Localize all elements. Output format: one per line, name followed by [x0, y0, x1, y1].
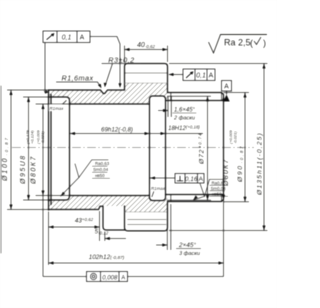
svg-text:Ø135h11(-0,25): Ø135h11(-0,25) — [257, 132, 264, 196]
collar chamfer edge lines — [125, 72, 168, 74]
svg-text:-0,021): -0,021) — [40, 131, 45, 144]
Ø80K7 right — [222, 96, 225, 101]
svg-text:Ra0,63: Ra0,63 — [95, 161, 110, 166]
svg-text:-0,021): -0,021) — [232, 131, 237, 144]
svg-text:0,16: 0,16 — [185, 176, 198, 183]
svg-text:Ra0,8: Ra0,8 — [212, 180, 224, 185]
left symbol — [75, 160, 109, 178]
svg-text:40-0,62: 40-0,62 — [137, 42, 156, 49]
frame 1 — [43, 31, 90, 43]
svg-text:Ø95U8: Ø95U8 — [20, 154, 27, 185]
40 dim — [125, 48, 130, 51]
svg-text:2 фаски: 2 фаски — [173, 116, 195, 122]
svg-text:R1max: R1max — [151, 186, 166, 191]
svg-text:Ø80К7: Ø80К7 — [223, 158, 230, 187]
Ø95U8 — [27, 97, 30, 102]
Ø72 ext + dim — [167, 95, 211, 97]
5 — [105, 237, 110, 240]
Ø135 ext + dim — [169, 63, 268, 65]
svg-text:2×45°: 2×45° — [178, 241, 197, 249]
R1,6max underline+leader — [56, 82, 101, 87]
svg-text:Sm0,04: Sm0,04 — [93, 167, 109, 172]
svg-text:0,1: 0,1 — [62, 35, 72, 42]
Rmax leader 2 — [152, 191, 154, 197]
2x45 — [162, 243, 167, 246]
centerline — [12, 147, 254, 149]
43 — [49, 225, 54, 228]
svg-text:0,008: 0,008 — [102, 275, 118, 281]
R1max leader 1 — [61, 100, 67, 105]
frame 4 — [87, 272, 128, 282]
69h12 — [70, 132, 75, 135]
scan edge artifact left — [0, 86, 2, 253]
bore upper: Ø95 line, step, Ø80 line — [49, 97, 70, 200]
svg-text:Ø80К7: Ø80К7 — [31, 155, 38, 185]
svg-text:): ) — [263, 38, 266, 48]
Ø100 — [9, 90, 12, 95]
svg-text:(: ( — [250, 38, 253, 48]
69h12 / 18H12 dim line — [70, 133, 203, 135]
ring groove rounded rect — [150, 96, 166, 201]
svg-text:R1max: R1max — [50, 106, 65, 111]
svg-text:5-0,12: 5-0,12 — [95, 229, 109, 236]
frame2 leader — [169, 74, 183, 76]
svg-text:Ø90-0,87: Ø90-0,87 — [237, 145, 244, 183]
rotated diameter texts — [2, 130, 264, 196]
hatch upper band — [49, 83, 168, 104]
svg-text:A: A — [121, 275, 125, 281]
small check in parens — [254, 37, 261, 45]
Ø90 — [243, 93, 246, 98]
R3 leader — [102, 64, 142, 86]
outer profile upper — [49, 64, 224, 231]
1,6x45 — [163, 109, 168, 112]
svg-text:+0,124): +0,124) — [29, 130, 34, 144]
svg-text:1,6×45°: 1,6×45° — [174, 108, 196, 114]
svg-text:A: A — [209, 73, 214, 80]
frame3 leader — [150, 177, 175, 179]
top-right Ra 2,5 radical — [209, 35, 268, 54]
hatch lower band — [49, 195, 168, 213]
Ø90 ext + dim — [224, 92, 250, 94]
1,6x45 ext + arrowline — [167, 97, 169, 118]
svg-text:нв50: нв50 — [95, 173, 105, 178]
Ø80K7 right dim line (shares end-face extension) — [223, 95, 225, 277]
svg-text:A: A — [224, 84, 229, 91]
svg-text:нв50: нв50 — [212, 191, 222, 196]
frame 2 — [183, 69, 215, 81]
left dims extension lines — [7, 89, 49, 91]
svg-text:A: A — [199, 176, 204, 183]
svg-text:Ø100-0,87: Ø100-0,87 — [2, 136, 9, 182]
svg-text:R1,6max: R1,6max — [62, 74, 94, 83]
svg-text:R3±0,2: R3±0,2 — [108, 56, 134, 65]
Ø80K7 left — [41, 104, 44, 109]
svg-text:A: A — [80, 35, 85, 42]
frame1 leader to left face — [45, 43, 48, 93]
right bore lines — [166, 100, 224, 102]
journal left chamfer edge — [170, 93, 172, 101]
face inner chamfer line — [50, 95, 52, 205]
hatch boundary faint lines in collar — [125, 82, 168, 84]
102h12 dim — [49, 262, 224, 264]
svg-text:69h12(-0,8): 69h12(-0,8) — [101, 127, 133, 134]
18H12 — [161, 132, 166, 135]
right symbol — [200, 179, 226, 196]
left dim lines — [10, 90, 12, 210]
frame 3 — [175, 174, 204, 184]
frame arrow symbols tips — [51, 33, 194, 75]
journal end chamfer edge — [221, 93, 223, 101]
2x45 ext + arrowline — [166, 204, 168, 250]
43 / 5 dims — [48, 212, 50, 266]
Ø135 — [262, 64, 265, 69]
R1max labels with white bg — [49, 104, 166, 191]
concentricity frame connectors — [43, 276, 87, 278]
frame1 right leader to groove — [90, 37, 120, 87]
102h12 — [49, 261, 54, 264]
svg-text:Ra 2,5: Ra 2,5 — [224, 38, 251, 48]
svg-text:0,1: 0,1 — [196, 73, 206, 80]
svg-text:3 фаски: 3 фаски — [179, 251, 200, 257]
Ø72 — [206, 96, 209, 101]
40 dim — [124, 46, 126, 63]
svg-text:102h12(-0,87): 102h12(-0,87) — [89, 254, 125, 261]
